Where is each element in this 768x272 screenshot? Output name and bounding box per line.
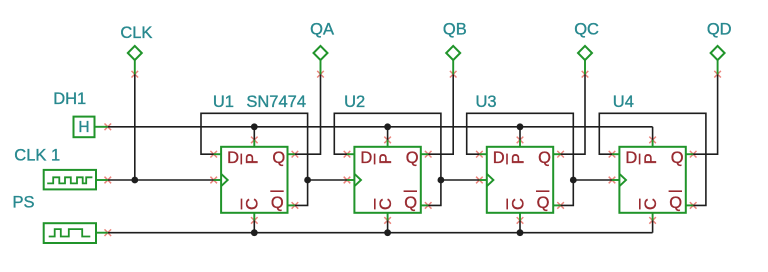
source DH1 digital high xyxy=(53,90,108,137)
wire U2 feedback loop Qbar to D xyxy=(334,113,441,205)
terminal QC connection marker xyxy=(582,71,589,78)
wire QB net: U2 Q output to terminal QB xyxy=(428,74,453,154)
junction node U1 Qbar/U2 clock branch xyxy=(304,177,311,184)
svg-text:U2: U2 xyxy=(344,93,365,111)
U3 pin CLK connection marker xyxy=(476,177,483,184)
wire QD net: U4 Q output to terminal QD xyxy=(693,74,717,154)
svg-text:P: P xyxy=(642,153,660,164)
wire QA net: U1 Q output to terminal QA xyxy=(295,74,321,154)
node QA output terminal xyxy=(310,21,334,75)
wire CLK net: terminal down, generator across to U1 clock xyxy=(108,74,214,180)
U1 green pin stubs xyxy=(214,140,295,221)
terminal QD connection marker xyxy=(714,71,721,78)
svg-text:P: P xyxy=(509,153,527,164)
junction node U3 Qbar/U4 clock branch xyxy=(570,177,577,184)
U2 pin CLK connection marker xyxy=(344,177,351,184)
svg-text:Q: Q xyxy=(671,149,684,167)
junction node preset/U1 xyxy=(251,123,258,130)
U3 pin D connection marker xyxy=(476,151,483,158)
terminal QB connection marker xyxy=(450,71,457,78)
U3 pin CLR connection marker xyxy=(517,217,524,224)
wire U3 feedback loop Qbar to D xyxy=(467,113,574,205)
U4 pin CLK connection marker xyxy=(609,177,616,184)
svg-text:D: D xyxy=(360,149,372,167)
junction node preset/U3 xyxy=(517,123,524,130)
U3 pin PRE connection marker xyxy=(517,137,524,144)
wire U4 feedback loop Qbar to D xyxy=(599,113,706,205)
U3 pin Qbar connection marker xyxy=(557,202,564,209)
wire U2 Qbar to U3 clock xyxy=(441,179,480,181)
svg-text:C: C xyxy=(509,198,527,210)
U1 pin CLK connection marker xyxy=(210,177,217,184)
svg-text:Q: Q xyxy=(271,194,284,212)
terminal CLK connection marker xyxy=(132,71,139,78)
node CLK output terminal xyxy=(120,24,152,74)
U2 pin Q connection marker xyxy=(425,151,432,158)
svg-text:U4: U4 xyxy=(613,93,634,111)
svg-text:QC: QC xyxy=(574,21,599,39)
junction node preset/U2 xyxy=(384,123,391,130)
svg-text:CLK 1: CLK 1 xyxy=(14,147,60,165)
U2 pin D connection marker xyxy=(344,151,351,158)
wire U1 Qbar to U2 clock xyxy=(308,179,347,181)
junction node clear/U1 xyxy=(251,229,258,236)
junction node CLK terminal/generator xyxy=(131,177,138,184)
D flip-flop U4 xyxy=(613,93,686,213)
svg-text:D: D xyxy=(493,149,505,167)
U2 pin PRE connection marker xyxy=(384,137,391,144)
svg-text:QA: QA xyxy=(310,21,334,39)
U3 pin Q connection marker xyxy=(557,151,564,158)
U1 pin D connection marker xyxy=(210,151,217,158)
CLK 1 generator output connection marker xyxy=(105,177,112,184)
svg-text:P: P xyxy=(244,153,262,164)
wire U1 feedback loop Qbar to D xyxy=(201,113,308,205)
svg-text:SN7474: SN7474 xyxy=(246,93,306,111)
U1 pin Qbar connection marker xyxy=(292,202,299,209)
svg-text:QD: QD xyxy=(707,21,732,39)
U3 green pin stubs xyxy=(479,140,560,221)
junction node clear/U2 xyxy=(384,229,391,236)
wire preset net from DH1 output across tops of U1-U4 xyxy=(108,127,653,140)
U4 pin Q connection marker xyxy=(690,151,697,158)
svg-text:C: C xyxy=(377,198,395,210)
source CLK 1 clock generator xyxy=(14,147,108,190)
U4 pin Qbar connection marker xyxy=(690,202,697,209)
D flip-flop U1 SN7474 xyxy=(213,93,306,213)
svg-text:H: H xyxy=(78,119,89,136)
U2 green pin stubs xyxy=(347,140,428,221)
wire QC net: U3 Q output to terminal QC xyxy=(561,74,585,154)
PS generator output connection marker xyxy=(105,229,112,236)
wire clear net from PS output across bottoms of U1-U4 xyxy=(108,220,653,232)
svg-text:D: D xyxy=(227,149,239,167)
svg-text:P: P xyxy=(377,153,395,164)
svg-text:C: C xyxy=(642,198,660,210)
terminal QA connection marker xyxy=(317,71,324,78)
svg-text:CLK: CLK xyxy=(120,24,152,42)
node QC output terminal xyxy=(574,21,599,75)
U1 pin Q connection marker xyxy=(292,151,299,158)
node QD output terminal xyxy=(707,21,732,75)
D flip-flop U2 xyxy=(344,93,421,213)
U4 pin PRE connection marker xyxy=(649,137,656,144)
svg-text:D: D xyxy=(625,149,637,167)
source PS pulse generator xyxy=(13,193,108,243)
U4 green pin stubs xyxy=(612,140,693,221)
DH1 output connection marker xyxy=(105,124,112,131)
svg-text:QB: QB xyxy=(443,21,467,39)
svg-text:C: C xyxy=(244,198,262,210)
svg-text:Q: Q xyxy=(406,149,419,167)
U4 pin D connection marker xyxy=(609,151,616,158)
U4 pin CLR connection marker xyxy=(649,217,656,224)
D flip-flop U3 xyxy=(476,93,554,213)
wire U3 Qbar to U4 clock xyxy=(573,179,612,181)
svg-text:U3: U3 xyxy=(476,93,497,111)
svg-text:Q: Q xyxy=(272,149,285,167)
svg-text:Q: Q xyxy=(404,194,417,212)
svg-text:Q: Q xyxy=(537,194,550,212)
U1 pin PRE connection marker xyxy=(251,137,258,144)
U2 pin CLR connection marker xyxy=(384,217,391,224)
svg-text:DH1: DH1 xyxy=(53,90,86,108)
svg-text:Q: Q xyxy=(538,149,551,167)
junction node U2 Qbar/U3 clock branch xyxy=(438,177,445,184)
junction node clear/U3 xyxy=(517,229,524,236)
svg-text:Q: Q xyxy=(669,194,682,212)
svg-text:U1: U1 xyxy=(213,93,234,111)
U2 pin Qbar connection marker xyxy=(425,202,432,209)
svg-text:PS: PS xyxy=(13,193,35,211)
U1 pin CLR connection marker xyxy=(251,217,258,224)
node QB output terminal xyxy=(443,21,467,75)
